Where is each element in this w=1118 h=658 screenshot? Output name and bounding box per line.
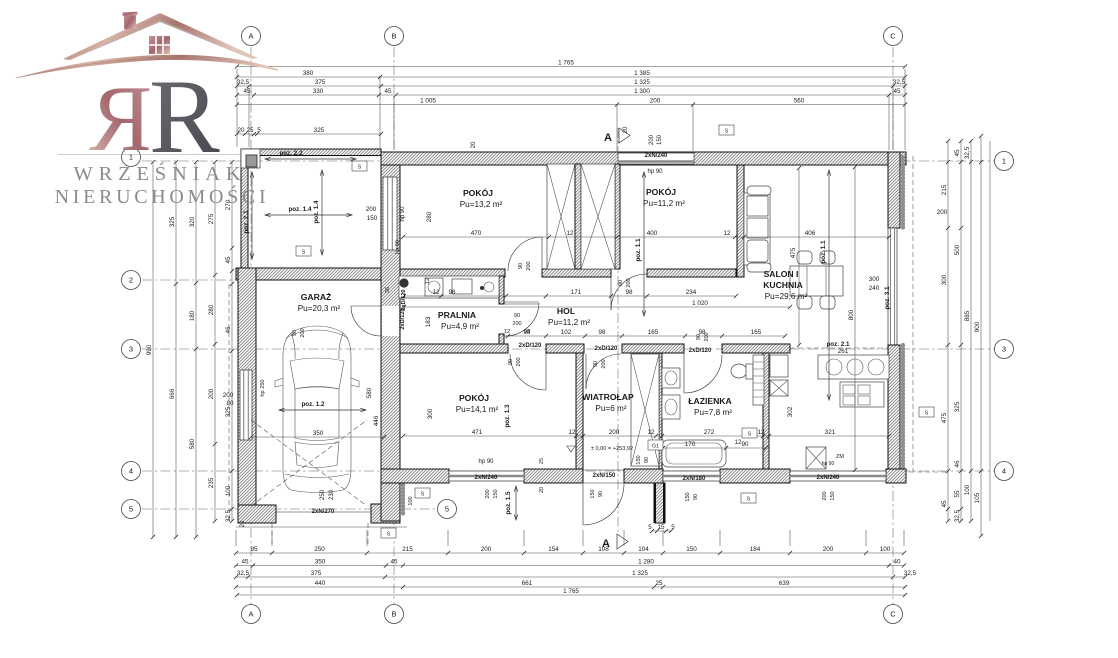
svg-text:100: 100 — [880, 546, 891, 553]
svg-text:90: 90 — [514, 313, 520, 319]
svg-text:PRALNIA: PRALNIA — [438, 310, 476, 320]
svg-text:150: 150 — [367, 215, 378, 222]
svg-text:S: S — [725, 128, 729, 134]
svg-text:2xN/240: 2xN/240 — [817, 475, 840, 481]
svg-text:90: 90 — [696, 334, 702, 340]
svg-text:280: 280 — [208, 304, 215, 315]
svg-text:4: 4 — [1002, 467, 1006, 476]
svg-text:46: 46 — [954, 460, 961, 468]
svg-text:32,5: 32,5 — [237, 79, 250, 86]
svg-text:45: 45 — [225, 256, 232, 264]
svg-text:Pu=11,2 m²: Pu=11,2 m² — [548, 318, 590, 327]
svg-text:poz. 1.1: poz. 1.1 — [820, 240, 827, 264]
svg-text:98: 98 — [448, 289, 456, 296]
svg-text:200: 200 — [481, 546, 492, 553]
svg-text:1: 1 — [1002, 157, 1006, 166]
svg-text:45: 45 — [243, 88, 251, 95]
svg-text:S: S — [302, 249, 306, 255]
svg-text:300: 300 — [941, 274, 948, 285]
svg-text:2xD/120: 2xD/120 — [400, 308, 406, 329]
svg-text:12: 12 — [647, 429, 655, 436]
svg-text:321: 321 — [825, 429, 836, 436]
svg-text:90: 90 — [292, 330, 298, 336]
svg-text:320: 320 — [189, 216, 196, 227]
svg-text:90: 90 — [518, 263, 524, 269]
svg-text:170: 170 — [685, 441, 696, 448]
svg-text:200: 200 — [823, 546, 834, 553]
svg-text:ZM: ZM — [836, 454, 844, 460]
svg-text:330: 330 — [313, 88, 324, 95]
svg-text:375: 375 — [315, 79, 326, 86]
svg-text:280: 280 — [426, 211, 433, 222]
svg-text:165: 165 — [648, 329, 659, 336]
svg-text:12: 12 — [734, 439, 742, 446]
svg-text:hp 90: hp 90 — [395, 240, 401, 254]
svg-text:1 005: 1 005 — [420, 98, 436, 105]
svg-text:20: 20 — [471, 141, 477, 148]
svg-text:375: 375 — [311, 570, 322, 577]
svg-text:800: 800 — [848, 309, 855, 320]
svg-text:hp 250: hp 250 — [260, 379, 266, 396]
svg-text:350: 350 — [315, 559, 326, 566]
svg-text:200: 200 — [208, 388, 215, 399]
svg-text:32,5: 32,5 — [237, 570, 250, 577]
svg-text:400: 400 — [647, 230, 658, 237]
svg-text:B: B — [391, 610, 396, 619]
svg-text:45: 45 — [241, 559, 249, 566]
svg-text:1 325: 1 325 — [634, 79, 650, 86]
svg-text:100: 100 — [964, 484, 971, 495]
svg-text:12: 12 — [504, 329, 510, 335]
svg-text:12: 12 — [432, 289, 440, 296]
svg-text:POKÓJ: POKÓJ — [646, 186, 676, 197]
svg-text:45: 45 — [954, 149, 961, 157]
svg-text:1 280: 1 280 — [638, 559, 654, 566]
svg-text:446: 446 — [373, 415, 380, 426]
svg-text:215: 215 — [402, 546, 413, 553]
svg-text:900: 900 — [974, 321, 981, 332]
svg-text:2xN/150: 2xN/150 — [593, 473, 616, 479]
svg-text:990: 990 — [146, 344, 153, 355]
svg-text:poz. 2.1: poz. 2.1 — [826, 341, 850, 348]
svg-text:98: 98 — [625, 289, 633, 296]
svg-text:B: B — [391, 32, 396, 41]
svg-text:104: 104 — [638, 546, 649, 553]
svg-text:235: 235 — [208, 477, 215, 488]
svg-text:380: 380 — [303, 70, 314, 77]
svg-text:80: 80 — [226, 400, 234, 407]
svg-text:poz. 2.2: poz. 2.2 — [279, 150, 303, 157]
svg-text:325: 325 — [225, 406, 232, 417]
svg-text:12: 12 — [425, 278, 431, 284]
svg-text:32,5: 32,5 — [964, 146, 971, 159]
svg-text:350: 350 — [313, 430, 324, 437]
svg-text:2xN/180: 2xN/180 — [683, 476, 706, 482]
svg-text:55: 55 — [954, 490, 961, 498]
svg-text:12: 12 — [723, 230, 731, 237]
svg-text:hp 90: hp 90 — [822, 461, 835, 467]
svg-text:200: 200 — [704, 332, 710, 341]
svg-text:poz. 1.3: poz. 1.3 — [504, 404, 511, 428]
svg-text:KUCHNIA: KUCHNIA — [763, 280, 803, 290]
svg-text:261: 261 — [838, 348, 849, 355]
svg-text:Pu=11,2 m²: Pu=11,2 m² — [643, 199, 685, 208]
svg-text:A: A — [248, 610, 253, 619]
svg-text:NIERUCHOMOŚCI: NIERUCHOMOŚCI — [55, 184, 270, 208]
svg-text:90: 90 — [644, 457, 650, 463]
svg-text:46: 46 — [225, 326, 232, 334]
svg-text:32,5: 32,5 — [225, 509, 232, 522]
svg-text:S: S — [747, 496, 751, 502]
svg-text:200: 200 — [223, 392, 234, 399]
svg-text:165: 165 — [751, 329, 762, 336]
svg-text:5: 5 — [671, 524, 675, 531]
svg-text:470: 470 — [471, 230, 482, 237]
svg-text:325: 325 — [954, 401, 961, 412]
svg-text:20: 20 — [237, 127, 245, 134]
svg-text:666: 666 — [169, 388, 176, 399]
svg-text:POKÓJ: POKÓJ — [463, 187, 493, 198]
svg-text:5: 5 — [445, 505, 449, 514]
svg-text:Pu=4,9 m²: Pu=4,9 m² — [441, 322, 479, 331]
svg-text:300: 300 — [427, 408, 434, 419]
svg-text:1 765: 1 765 — [563, 588, 579, 595]
svg-text:3: 3 — [1002, 345, 1006, 354]
svg-text:12: 12 — [566, 230, 574, 237]
svg-text:5: 5 — [648, 524, 652, 531]
svg-text:240: 240 — [869, 285, 880, 292]
svg-text:poz. 1.1: poz. 1.1 — [635, 238, 642, 262]
svg-text:32,5: 32,5 — [904, 570, 917, 577]
svg-text:36: 36 — [385, 287, 391, 293]
svg-text:S: S — [925, 410, 929, 416]
svg-text:885: 885 — [964, 310, 971, 321]
svg-text:2xD/120: 2xD/120 — [519, 343, 542, 349]
svg-text:S: S — [358, 164, 362, 170]
svg-text:hp 90: hp 90 — [647, 169, 663, 175]
svg-text:SALON I: SALON I — [764, 269, 799, 279]
svg-text:639: 639 — [779, 580, 790, 587]
svg-text:580: 580 — [366, 387, 373, 398]
svg-text:Pu=20,3 m²: Pu=20,3 m² — [298, 304, 341, 313]
svg-text:440: 440 — [315, 580, 326, 587]
svg-text:1 385: 1 385 — [634, 70, 650, 77]
svg-text:90: 90 — [741, 441, 749, 448]
svg-text:45: 45 — [941, 500, 948, 508]
svg-text:150: 150 — [657, 134, 663, 145]
svg-text:40: 40 — [893, 559, 901, 566]
svg-text:475: 475 — [941, 412, 948, 423]
svg-text:12: 12 — [568, 429, 576, 436]
svg-text:250: 250 — [320, 489, 326, 500]
svg-text:S: S — [387, 531, 391, 537]
svg-text:Pu=14,1 m²: Pu=14,1 m² — [456, 405, 499, 414]
svg-text:150: 150 — [686, 546, 697, 553]
svg-text:200: 200 — [526, 261, 532, 270]
svg-text:45: 45 — [384, 88, 392, 95]
svg-text:4: 4 — [129, 467, 133, 476]
svg-text:200: 200 — [601, 359, 607, 368]
svg-text:25: 25 — [539, 458, 545, 464]
svg-text:POKÓJ: POKÓJ — [459, 392, 489, 403]
svg-text:1 325: 1 325 — [632, 570, 648, 577]
svg-text:poz. 3.1: poz. 3.1 — [884, 286, 891, 310]
svg-text:200: 200 — [366, 206, 377, 213]
svg-text:500: 500 — [954, 244, 961, 255]
svg-text:302: 302 — [787, 406, 794, 417]
svg-text:475: 475 — [790, 247, 797, 258]
svg-text:90: 90 — [598, 491, 604, 497]
svg-text:2xD/120: 2xD/120 — [401, 289, 407, 310]
svg-text:1 300: 1 300 — [634, 88, 650, 95]
svg-text:230: 230 — [329, 489, 335, 500]
svg-text:15: 15 — [657, 524, 665, 531]
svg-text:98: 98 — [523, 329, 531, 336]
svg-text:32,5: 32,5 — [893, 79, 906, 86]
svg-text:A: A — [604, 132, 612, 144]
svg-text:200: 200 — [626, 278, 632, 287]
svg-text:C: C — [890, 32, 896, 41]
svg-text:250: 250 — [314, 546, 325, 553]
svg-text:150: 150 — [685, 492, 691, 501]
svg-text:C: C — [890, 610, 896, 619]
svg-text:90: 90 — [593, 361, 599, 367]
svg-text:2: 2 — [129, 276, 133, 285]
svg-text:3: 3 — [129, 345, 133, 354]
svg-text:180: 180 — [189, 310, 196, 321]
svg-text:105: 105 — [974, 492, 981, 503]
svg-text:406: 406 — [805, 230, 816, 237]
svg-text:1 765: 1 765 — [558, 60, 574, 67]
svg-text:183: 183 — [425, 316, 432, 327]
svg-text:200: 200 — [485, 489, 491, 498]
svg-text:325: 325 — [169, 216, 176, 227]
svg-text:Pu=13,2 m²: Pu=13,2 m² — [460, 200, 503, 209]
svg-text:200: 200 — [937, 209, 948, 216]
svg-text:25: 25 — [246, 127, 254, 134]
svg-text:hp 90: hp 90 — [400, 206, 406, 222]
svg-text:90: 90 — [508, 359, 514, 365]
svg-text:90: 90 — [618, 280, 624, 286]
svg-text:HOL: HOL — [557, 306, 575, 316]
svg-text:45: 45 — [893, 88, 901, 95]
svg-text:20: 20 — [539, 487, 545, 493]
svg-text:560: 560 — [794, 98, 805, 105]
svg-text:200: 200 — [512, 321, 521, 327]
svg-text:poz. 1.2: poz. 1.2 — [301, 401, 325, 408]
svg-text:Pu=29,6 m²: Pu=29,6 m² — [765, 292, 808, 301]
svg-text:150: 150 — [636, 455, 642, 464]
svg-text:WRZEŚNIAK: WRZEŚNIAK — [74, 161, 247, 185]
svg-text:WIATROŁAP: WIATROŁAP — [582, 392, 634, 402]
svg-text:150: 150 — [590, 489, 596, 498]
svg-text:200: 200 — [516, 357, 522, 366]
svg-text:200: 200 — [650, 98, 661, 105]
svg-text:275: 275 — [208, 213, 215, 224]
svg-text:100: 100 — [408, 496, 414, 505]
svg-text:20: 20 — [240, 520, 246, 527]
svg-text:20: 20 — [623, 126, 629, 133]
svg-text:580: 580 — [189, 438, 196, 449]
svg-text:95: 95 — [250, 546, 258, 553]
svg-text:98: 98 — [598, 329, 606, 336]
svg-text:272: 272 — [704, 429, 715, 436]
svg-text:5: 5 — [129, 505, 133, 514]
svg-text:45: 45 — [390, 559, 398, 566]
svg-text:32,5: 32,5 — [954, 509, 961, 522]
svg-text:± 0,00 = +253,92: ± 0,00 = +253,92 — [591, 446, 633, 452]
svg-text:poz. 1.4: poz. 1.4 — [288, 206, 312, 213]
svg-text:Pu=6 m²: Pu=6 m² — [595, 404, 626, 413]
svg-text:1 020: 1 020 — [692, 300, 708, 307]
svg-text:234: 234 — [686, 289, 697, 296]
svg-text:poz. 1.5: poz. 1.5 — [505, 491, 512, 515]
svg-text:GARAŻ: GARAŻ — [301, 292, 332, 302]
svg-text:12: 12 — [757, 429, 765, 436]
svg-text:661: 661 — [522, 580, 533, 587]
svg-text:2xN/240: 2xN/240 — [475, 475, 498, 481]
svg-text:100: 100 — [225, 485, 232, 496]
svg-text:150: 150 — [830, 491, 836, 500]
svg-text:R: R — [89, 67, 152, 171]
svg-text:5: 5 — [257, 127, 261, 134]
svg-text:90: 90 — [693, 494, 699, 500]
svg-text:102: 102 — [561, 329, 572, 336]
svg-text:poz. 1.4: poz. 1.4 — [313, 200, 320, 224]
svg-text:S: S — [748, 431, 752, 437]
svg-text:S: S — [421, 491, 425, 497]
svg-text:poz. 2.1: poz. 2.1 — [243, 210, 250, 234]
svg-text:25: 25 — [655, 580, 663, 587]
svg-text:200: 200 — [300, 328, 306, 337]
svg-text:300: 300 — [869, 276, 880, 283]
svg-text:hp 90: hp 90 — [478, 459, 494, 465]
svg-text:171: 171 — [571, 289, 582, 296]
svg-text:2xN/240: 2xN/240 — [645, 153, 668, 159]
svg-text:200: 200 — [649, 134, 655, 145]
svg-text:200: 200 — [609, 429, 620, 436]
svg-text:471: 471 — [472, 429, 483, 436]
svg-text:325: 325 — [314, 127, 325, 134]
svg-text:2xD/120: 2xD/120 — [689, 348, 712, 354]
svg-text:R: R — [149, 58, 220, 175]
svg-text:G1: G1 — [652, 443, 659, 449]
svg-text:200: 200 — [822, 491, 828, 500]
svg-text:Pu=7,8 m²: Pu=7,8 m² — [694, 408, 732, 417]
svg-text:ŁAZIENKA: ŁAZIENKA — [688, 396, 731, 406]
svg-text:150: 150 — [493, 489, 499, 498]
svg-text:184: 184 — [750, 546, 761, 553]
svg-text:215: 215 — [941, 184, 948, 195]
svg-text:108: 108 — [598, 546, 609, 553]
svg-text:A: A — [248, 32, 253, 41]
svg-text:2xN/270: 2xN/270 — [312, 509, 335, 515]
svg-text:2xD/120: 2xD/120 — [595, 346, 618, 352]
svg-text:154: 154 — [548, 546, 559, 553]
